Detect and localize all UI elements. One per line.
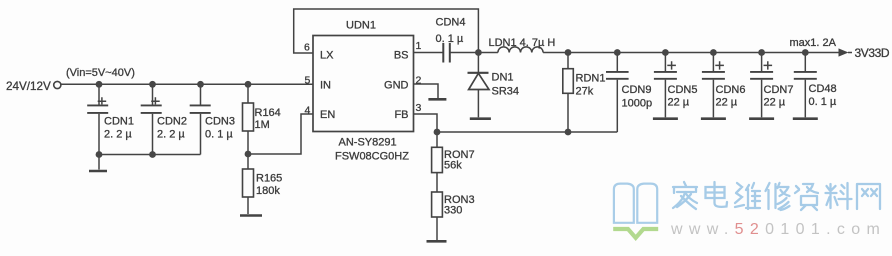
resistor RON7	[432, 132, 443, 192]
svg-text:3: 3	[416, 102, 422, 114]
svg-text:SR34: SR34	[492, 86, 520, 98]
svg-text:CDN1: CDN1	[104, 116, 134, 128]
svg-text:3V33D: 3V33D	[855, 46, 890, 60]
svg-text:(Vin=5V~40V): (Vin=5V~40V)	[66, 67, 135, 79]
svg-text:6: 6	[304, 42, 310, 54]
svg-text:FSW08CG0HZ: FSW08CG0HZ	[335, 151, 409, 163]
svg-text:www.520101.com: www.520101.com	[670, 221, 886, 238]
svg-text:1000p: 1000p	[622, 98, 653, 110]
svg-text:R165: R165	[256, 173, 282, 185]
wire BS stub	[414, 52, 444, 54]
svg-text:1M: 1M	[255, 119, 270, 131]
svg-text:1: 1	[416, 40, 422, 52]
svg-text:IN: IN	[320, 79, 331, 91]
svg-text:FB: FB	[394, 109, 408, 121]
svg-text:330: 330	[444, 205, 462, 217]
wire FB line	[437, 131, 617, 133]
svg-text:CDN7: CDN7	[764, 84, 794, 96]
resistor RDN1	[563, 53, 574, 133]
svg-text:DN1: DN1	[492, 72, 514, 84]
svg-text:GND: GND	[384, 79, 409, 91]
ground	[427, 240, 447, 243]
svg-text:CDN4: CDN4	[436, 17, 466, 29]
capacitor CDN2	[141, 84, 162, 154]
watermark logo book icon	[614, 184, 657, 223]
svg-text:22 µ: 22 µ	[716, 97, 738, 109]
svg-text:2: 2	[416, 74, 422, 86]
svg-text:4: 4	[305, 105, 311, 117]
watermark logo green ribbon	[613, 229, 658, 238]
svg-text:56k: 56k	[444, 160, 462, 172]
capacitor CDN9	[606, 53, 629, 133]
svg-text:LDN1 4. 7µ H: LDN1 4. 7µ H	[489, 37, 556, 49]
ground	[653, 117, 678, 120]
capacitor CDN7	[750, 53, 773, 118]
svg-text:LX: LX	[320, 49, 334, 61]
svg-text:0. 1 µ: 0. 1 µ	[809, 96, 837, 108]
resistor R165	[243, 154, 254, 214]
svg-text:0. 1 µ: 0. 1 µ	[205, 129, 233, 141]
resistor R164	[243, 84, 254, 154]
svg-text:CDN2: CDN2	[157, 116, 187, 128]
svg-text:CDN6: CDN6	[716, 84, 746, 96]
svg-text:22 µ: 22 µ	[668, 97, 690, 109]
diode DN1	[468, 53, 490, 118]
wire LX loop	[294, 9, 479, 53]
wire ground rail	[99, 154, 201, 156]
capacitor CDN5	[654, 53, 677, 118]
ground	[240, 214, 262, 217]
svg-text:24V/12V: 24V/12V	[6, 80, 51, 93]
capacitor CDN1	[87, 84, 108, 154]
svg-text:5: 5	[305, 74, 311, 86]
ground	[749, 117, 774, 120]
svg-text:max1. 2A: max1. 2A	[790, 37, 837, 49]
capacitor CDN3	[190, 84, 211, 154]
svg-text:AN-SY8291: AN-SY8291	[339, 137, 397, 149]
watermark text 家电维修资料网 (stroke approximation)	[673, 182, 880, 210]
ground	[89, 155, 107, 172]
resistor RON3	[432, 192, 443, 240]
svg-text:CDN5: CDN5	[668, 84, 698, 96]
svg-text:27k: 27k	[576, 86, 594, 98]
capacitor CDN6	[702, 53, 725, 118]
op-amp U1 : IC UDN1 box	[313, 36, 414, 132]
svg-text:CDN9: CDN9	[622, 84, 652, 96]
capacitor CD48	[794, 53, 817, 118]
ground	[428, 98, 446, 101]
ground	[470, 117, 491, 120]
svg-text:R164: R164	[255, 107, 281, 119]
svg-text:180k: 180k	[256, 185, 280, 197]
svg-text:RDN1: RDN1	[576, 73, 606, 85]
ground	[701, 117, 726, 120]
inductor LDN1	[478, 47, 568, 53]
svg-text:UDN1: UDN1	[346, 20, 376, 32]
svg-text:2. 2 µ: 2. 2 µ	[104, 129, 132, 141]
wire output rail	[568, 52, 840, 54]
capacitor CDN4	[443, 43, 478, 63]
input terminal	[54, 81, 61, 88]
wire input rail	[61, 83, 313, 85]
wire FB	[414, 114, 438, 132]
output arrow	[839, 48, 853, 56]
wire GND pin	[414, 84, 439, 98]
wire EN	[248, 114, 313, 154]
svg-text:BS: BS	[394, 49, 409, 61]
svg-text:CD48: CD48	[809, 83, 837, 95]
svg-text:2. 2 µ: 2. 2 µ	[157, 129, 185, 141]
ground	[793, 117, 818, 120]
svg-text:0. 1 µ: 0. 1 µ	[436, 33, 464, 45]
svg-text:EN: EN	[320, 109, 335, 121]
svg-text:22 µ: 22 µ	[764, 97, 786, 109]
svg-text:CDN3: CDN3	[205, 116, 235, 128]
